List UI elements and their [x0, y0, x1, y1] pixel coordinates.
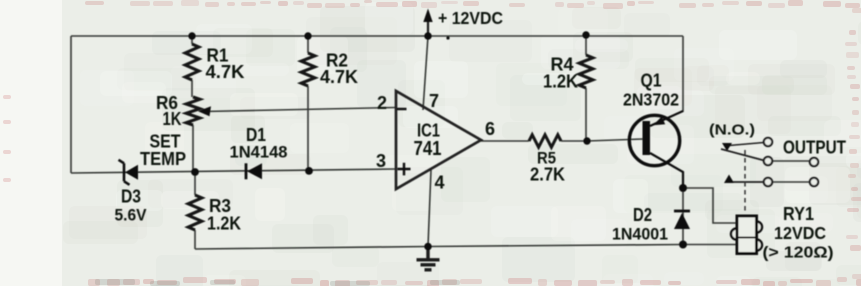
svg-text:4: 4 [434, 173, 444, 193]
svg-text:4.7K: 4.7K [320, 67, 358, 87]
svg-text:1N4148: 1N4148 [230, 143, 288, 162]
svg-text:741: 741 [414, 137, 442, 160]
svg-text:4.7K: 4.7K [206, 62, 245, 82]
svg-text:5.6V: 5.6V [115, 207, 147, 225]
svg-text:1.2K: 1.2K [543, 72, 578, 92]
svg-text:1N4001: 1N4001 [612, 225, 668, 244]
svg-text:1.2K: 1.2K [207, 214, 241, 234]
svg-text:12VDC: 12VDC [774, 223, 826, 243]
svg-text:(N.O.): (N.O.) [709, 122, 755, 139]
svg-text:OUTPUT: OUTPUT [783, 137, 847, 158]
svg-text:6: 6 [485, 119, 495, 139]
svg-text:Q1: Q1 [641, 70, 662, 90]
svg-text:2N3702: 2N3702 [623, 90, 679, 110]
svg-text:2: 2 [377, 93, 387, 113]
svg-text:7: 7 [429, 91, 439, 111]
svg-text:D2: D2 [633, 205, 652, 225]
svg-text:+ 12VDC: + 12VDC [438, 8, 503, 28]
svg-text:3: 3 [376, 151, 386, 171]
svg-text:RY1: RY1 [783, 204, 814, 224]
svg-text:1K: 1K [163, 109, 182, 129]
svg-text:(> 120Ω): (> 120Ω) [763, 245, 834, 262]
svg-text:D3: D3 [121, 187, 141, 207]
svg-text:TEMP: TEMP [140, 149, 186, 169]
svg-text:2.7K: 2.7K [530, 165, 565, 185]
